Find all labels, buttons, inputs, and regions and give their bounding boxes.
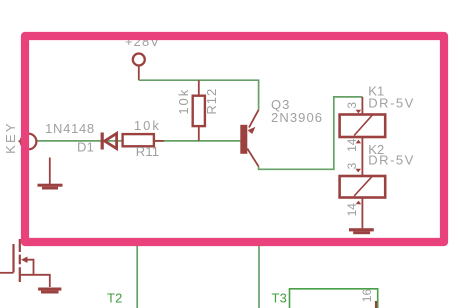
svg-text:T3: T3 xyxy=(272,291,288,306)
ground near KEY pin xyxy=(38,158,63,190)
wire net T3 xyxy=(258,238,260,308)
svg-text:DR-5V: DR-5V xyxy=(368,96,415,111)
pin 14 of K1 xyxy=(356,137,363,158)
pin 3 of K1 xyxy=(356,97,363,115)
svg-text:R11: R11 xyxy=(136,144,159,159)
pin KEY connector circle xyxy=(21,134,37,150)
ground at MOSFET source xyxy=(38,288,61,294)
svg-text:10k: 10k xyxy=(176,88,191,115)
resistor R11 xyxy=(123,134,164,146)
svg-text:1N4148: 1N4148 xyxy=(45,121,95,136)
relay K1 coil xyxy=(340,115,386,138)
resistor R12 xyxy=(193,80,205,141)
wire Q3 collector to K1 pin 3 xyxy=(259,97,363,169)
svg-text:3: 3 xyxy=(345,162,359,169)
svg-text:14: 14 xyxy=(345,203,359,217)
pin 3 of K2 xyxy=(355,158,362,176)
wire net T2 xyxy=(136,238,138,308)
svg-text:3: 3 xyxy=(345,102,359,109)
transistor T1 n-channel MOSFET (partially visible) xyxy=(0,239,50,287)
pin 14 of K2 xyxy=(356,198,363,229)
svg-text:D1: D1 xyxy=(77,140,94,155)
svg-text:KEY: KEY xyxy=(3,121,18,154)
pin line KEY xyxy=(19,140,23,142)
svg-text:14: 14 xyxy=(345,138,359,152)
pin stub inside T3 box xyxy=(375,301,377,308)
supply +28V symbol xyxy=(133,54,145,81)
diode D1 xyxy=(101,133,117,150)
svg-text:10k: 10k xyxy=(134,118,161,133)
relay K2 coil xyxy=(340,176,386,198)
svg-text:16: 16 xyxy=(360,289,374,303)
wire +28V rail to Q3 emitter xyxy=(139,80,259,110)
svg-text:2N3906: 2N3906 xyxy=(271,110,323,125)
selection rectangle (pink highlight) xyxy=(25,36,444,242)
wire net KEY to Q3 base xyxy=(36,140,240,142)
svg-text:T2: T2 xyxy=(107,291,123,306)
svg-text:R12: R12 xyxy=(204,88,219,115)
box T3 module outline xyxy=(290,289,378,308)
svg-text:DR-5V: DR-5V xyxy=(368,153,415,168)
transistor Q3 xyxy=(240,110,258,167)
ground under K2 xyxy=(349,228,374,234)
